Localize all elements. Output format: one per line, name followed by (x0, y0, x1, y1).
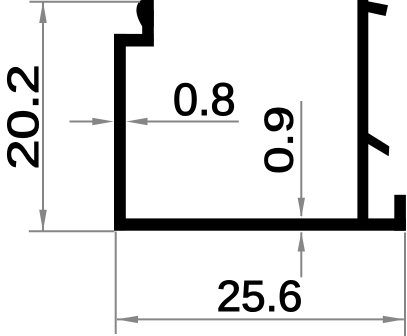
dim 0.8 left arrowhead (92, 118, 114, 125)
profile mid-right hook (364, 131, 389, 157)
svg-text:25.6: 25.6 (217, 272, 303, 321)
dim 0.8 right leader line (146, 121, 239, 123)
dim 25.6 left extension line (115, 232, 117, 335)
svg-text:0.8: 0.8 (173, 74, 236, 125)
svg-text:20.2: 20.2 (0, 64, 48, 169)
dim 0.8 left leader line (70, 121, 95, 123)
profile base (114, 218, 406, 230)
dim 0.9 lower dimension line (300, 232, 302, 277)
dim 20.2 bottom arrowhead (39, 210, 47, 232)
dim 25.6 left arrowhead (117, 316, 138, 323)
dim 20.2 top extension line (30, 1, 141, 3)
dim 25.6 right arrowhead (383, 316, 404, 323)
profile left wall (114, 34, 126, 231)
profile right wall (357, 0, 368, 230)
dim 25.6 dimension line (117, 318, 404, 320)
dim 0.9 lower arrowhead (298, 232, 305, 252)
dim 0.9 upper arrowhead (298, 198, 305, 218)
dim 20.2 dimension line (42, 2, 44, 231)
profile bottom-right stub (394, 195, 406, 231)
dim 20.2 top arrowhead (39, 2, 47, 24)
dim 25.6 right extension line (404, 233, 406, 336)
profile top-left web (114, 34, 154, 47)
svg-text:0.9: 0.9 (258, 106, 302, 174)
dim 20.2 bottom extension line (29, 230, 115, 232)
dim 0.9 upper dimension line (300, 101, 302, 216)
profile top-left lip (142, 10, 154, 47)
profile top-left bead (136, 0, 153, 27)
profile top-right hook (361, 0, 388, 16)
dim 0.8 right arrowhead (126, 118, 148, 125)
